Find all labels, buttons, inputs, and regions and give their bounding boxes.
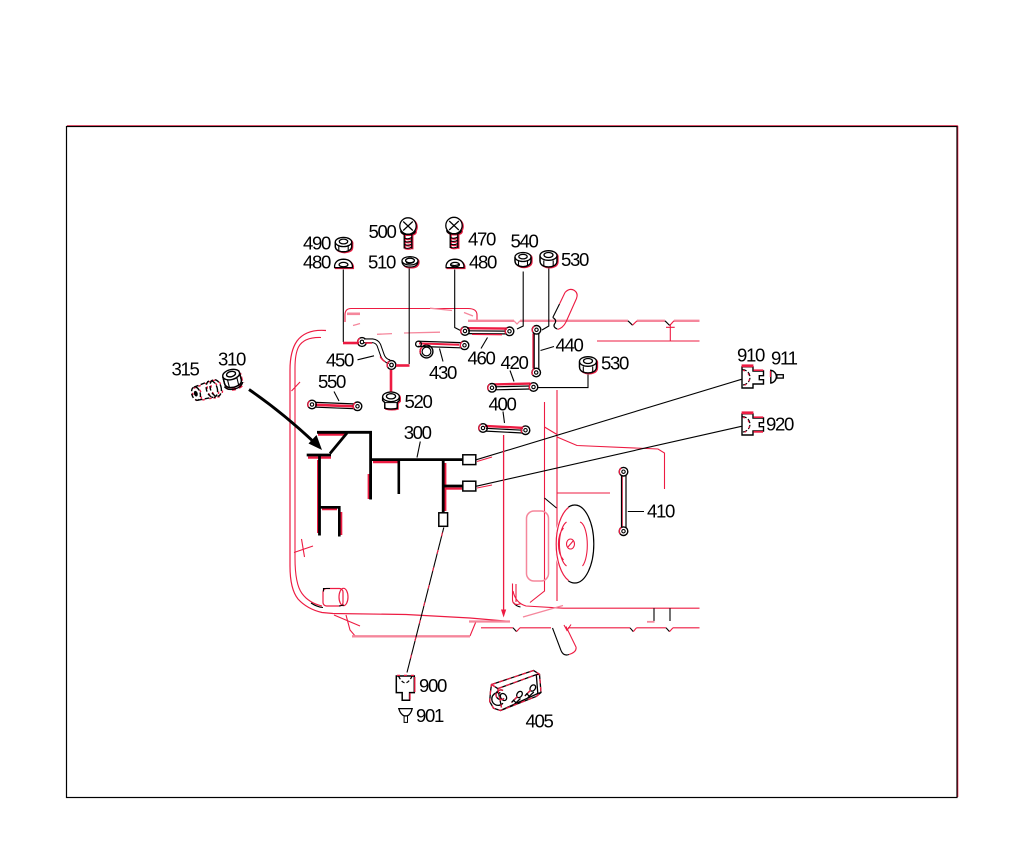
screw 470 xyxy=(446,217,463,249)
label 300 leader xyxy=(417,442,420,458)
rod 460 xyxy=(461,327,514,336)
wire harness 300: diagonal branch xyxy=(330,433,347,454)
rod 420 xyxy=(488,383,538,392)
pipe 450 tube body xyxy=(364,341,390,362)
leader line to 910 connector xyxy=(477,379,742,461)
nut 530 second xyxy=(580,357,598,374)
screw 500 xyxy=(400,218,417,250)
bushing 315 xyxy=(190,378,225,404)
bell housing bottom curve xyxy=(513,584,564,618)
svg-text:310: 310 xyxy=(218,349,246,370)
engine outline: cab inner curve xyxy=(295,337,322,606)
engine outline: windshield light band xyxy=(347,312,360,315)
engine outline: horizontal at flywheel top xyxy=(557,492,610,494)
bell housing bottom corner black arc xyxy=(514,603,521,608)
svg-text:460: 460 xyxy=(468,348,496,369)
nut 530 xyxy=(540,251,558,268)
pipe 450 wire right segment xyxy=(396,364,410,367)
svg-text:480: 480 xyxy=(303,252,331,273)
sensor 900 xyxy=(396,675,415,700)
wire harness 300: right vertical under top segment xyxy=(369,432,372,499)
label leader 460 xyxy=(481,338,488,349)
pipe 450 lower eyelet xyxy=(387,361,396,370)
svg-text:470: 470 xyxy=(468,229,496,250)
wire harness 300: branch to lower connector xyxy=(443,485,463,488)
nut 490 xyxy=(335,237,352,252)
clamp 430 ring xyxy=(420,345,433,358)
washer 480 xyxy=(335,259,354,268)
svg-text:400: 400 xyxy=(489,394,517,415)
engine outline: tick mark on cab left edge xyxy=(292,382,301,391)
label leader 400 xyxy=(503,412,505,424)
svg-text:520: 520 xyxy=(405,391,433,412)
rod 410 xyxy=(619,467,628,535)
label leader 420 xyxy=(510,371,514,382)
wire harness 300: middle short drop xyxy=(397,460,400,494)
engine outline: cowl light diagonal b xyxy=(464,313,473,317)
exhaust stub cylinder xyxy=(553,625,577,656)
wire harness 300: lower L branch xyxy=(320,507,340,536)
nut 310 xyxy=(221,367,245,392)
label leader 430 xyxy=(440,349,444,362)
pan-to-bellhousing light line xyxy=(469,620,510,622)
label leader 440 xyxy=(541,347,555,351)
engine outline: cross mark on cab lower left xyxy=(294,539,313,557)
rod 440 xyxy=(532,326,541,377)
svg-text:550: 550 xyxy=(318,371,346,392)
engine outline: hood dash small arc xyxy=(353,324,360,326)
engine outline: bell housing to starter black diagonal xyxy=(545,498,557,508)
engine outline: hood top line xyxy=(345,309,477,323)
svg-text:300: 300 xyxy=(404,422,432,443)
engine outline: rail break mark 2 with axle tick xyxy=(665,321,675,341)
label leader 450 xyxy=(358,356,375,360)
harness connector B (to 920) xyxy=(463,481,476,491)
leader from nut 530 second xyxy=(537,375,588,388)
leader from nut 540 xyxy=(517,272,523,330)
connector 911 xyxy=(770,370,783,383)
label leader 410 xyxy=(628,511,644,513)
starter motor rounded rect xyxy=(527,511,549,581)
leader line to 900 xyxy=(407,528,444,673)
engine outline: hood dashes row xyxy=(377,332,440,334)
svg-text:901: 901 xyxy=(416,705,444,726)
svg-text:480: 480 xyxy=(469,252,497,273)
engine outline: cab outer curve xyxy=(290,330,510,621)
svg-text:420: 420 xyxy=(501,352,529,373)
bracket 405 xyxy=(490,671,541,711)
engine outline: upper frame rail (light) xyxy=(468,321,700,324)
bottom rail lower line xyxy=(481,628,700,632)
pipe 450 wire left segment xyxy=(343,342,359,345)
washer 510 xyxy=(402,257,419,268)
engine outline: lower frame rail line xyxy=(597,340,700,342)
svg-text:450: 450 xyxy=(326,350,354,371)
wire harness 300: main horizontal xyxy=(371,458,463,461)
harness connector C (to 900) xyxy=(439,513,448,527)
nut 520 xyxy=(383,392,401,410)
svg-text:530: 530 xyxy=(561,249,589,270)
leader from washer 510 xyxy=(408,269,410,365)
engine outline: bell housing vertical line xyxy=(556,390,558,601)
connector 920 xyxy=(742,413,764,435)
label leader 550 xyxy=(334,392,339,402)
flywheel outer ellipse xyxy=(556,505,594,583)
leader line to 920 connector xyxy=(477,426,742,488)
wire harness 300: short left horizontal xyxy=(307,454,331,457)
svg-text:405: 405 xyxy=(526,711,554,732)
engine outline: block branch diagonal xyxy=(545,427,558,435)
engine mount box xyxy=(323,588,348,606)
flywheel inner left arcs xyxy=(558,522,566,566)
bottom rail upper line xyxy=(563,608,700,622)
wire harness 300: left long vertical xyxy=(318,455,321,536)
svg-text:530: 530 xyxy=(601,353,629,374)
washer 480 second xyxy=(446,259,465,268)
engine outline: cowl light diagonal a xyxy=(430,308,452,310)
leader from washer 480 second xyxy=(455,270,461,331)
svg-text:430: 430 xyxy=(429,362,457,383)
oil pan outline xyxy=(334,615,476,636)
engine outline: rail break mark 1 xyxy=(628,321,637,325)
harness 300 red shadow segments xyxy=(308,435,462,536)
pipe 450 upper eyelet xyxy=(358,338,367,347)
harness connector A (to 910) xyxy=(463,455,476,465)
plug 901 xyxy=(399,709,412,723)
rod 400 xyxy=(479,424,530,435)
svg-text:910: 910 xyxy=(737,345,765,366)
pipe 450 wire down segment (leader to 520) xyxy=(390,370,393,392)
svg-text:540: 540 xyxy=(511,231,539,252)
red locating leader from rod 400 xyxy=(501,435,506,618)
connector 910 xyxy=(742,366,764,388)
nut 540 xyxy=(515,253,532,268)
svg-text:500: 500 xyxy=(369,221,397,242)
engine outline: oil filler cylinder xyxy=(553,289,577,329)
svg-text:490: 490 xyxy=(303,233,331,254)
clamp 430 rod xyxy=(416,341,469,350)
svg-text:410: 410 xyxy=(647,501,675,522)
flywheel hub xyxy=(567,539,575,549)
oil pan bottom light line xyxy=(352,635,470,637)
rod 550 xyxy=(308,400,362,410)
svg-text:510: 510 xyxy=(368,252,396,273)
flywheel inner right arc xyxy=(580,522,587,566)
svg-text:440: 440 xyxy=(556,335,584,356)
svg-text:911: 911 xyxy=(771,348,798,369)
wire harness 300: right vertical drop xyxy=(442,460,445,513)
svg-text:920: 920 xyxy=(766,414,794,435)
engine outline: line to bracket corner xyxy=(557,437,665,489)
engine outline: block vertical line left xyxy=(530,402,545,603)
big locating arrow xyxy=(249,390,322,451)
wire harness 300: top horizontal segment xyxy=(317,431,372,434)
engine outline: cab inner curve black arc piece xyxy=(311,603,323,608)
svg-text:315: 315 xyxy=(172,359,200,380)
leader from nut 530 xyxy=(542,269,549,331)
border frame xyxy=(67,126,958,798)
leader from washer 480 xyxy=(342,270,344,343)
svg-text:900: 900 xyxy=(419,675,447,696)
